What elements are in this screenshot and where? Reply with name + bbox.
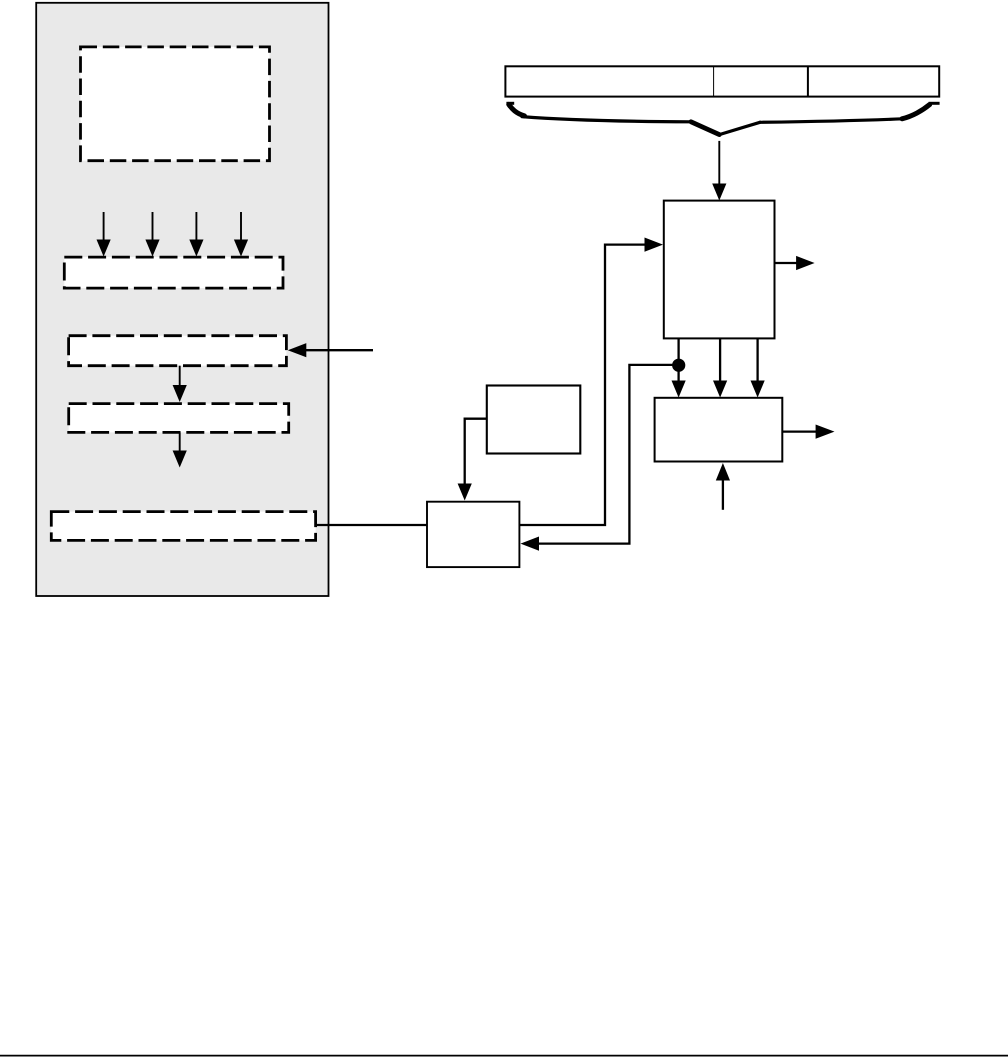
dashed bar 3 <box>69 404 289 433</box>
wire junction dot to box M (left, down, arrow into M right) <box>521 365 679 551</box>
arrow into bar 2 (from right) <box>288 343 373 357</box>
arrow B to C (3rd) <box>751 338 765 397</box>
arrow brace to box B <box>712 141 726 201</box>
brace under bar <box>506 103 939 134</box>
box C (lower right box) <box>655 398 783 462</box>
instruction word bar (3 cells) <box>505 66 939 96</box>
arrow in4 <box>234 212 248 257</box>
arrow bar2 to bar3 <box>173 366 187 402</box>
arrow B to C (2nd) <box>713 338 727 397</box>
wire bar4 to box M <box>316 524 427 526</box>
box M (lower middle box) <box>427 502 519 567</box>
wire box M to box B (right, up, arrow into B left) <box>519 238 663 526</box>
junction dot <box>672 359 685 372</box>
arrow in2 <box>145 212 159 257</box>
shaded panel (dashed-box group background) <box>36 3 328 596</box>
arrow B to C (1st, with junction dot) <box>672 338 686 397</box>
dashed bar 2 <box>69 336 287 366</box>
dashed bar 1 <box>64 257 283 288</box>
box S (small upper middle box) <box>487 386 581 454</box>
arrow into box C (from below) <box>716 463 730 510</box>
footer rule <box>0 1055 1008 1057</box>
arrow in3 <box>189 212 203 257</box>
dashed bar 4 (wide bottom bar) <box>51 512 315 541</box>
box B (large upper right box) <box>664 201 775 339</box>
arrow out of box B (right) <box>775 256 815 270</box>
wire box S to box M (with down arrow) <box>458 419 487 501</box>
arrow below bar 3 <box>173 432 187 467</box>
arrow out of box C (right) <box>782 425 834 439</box>
dashed box A (top rectangle in panel) <box>81 47 270 161</box>
arrow in1 (1st of four down arrows into bar 1) <box>97 212 111 257</box>
